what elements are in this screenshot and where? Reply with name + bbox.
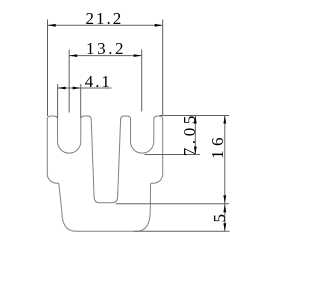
svg-text:21.2: 21.2 (86, 9, 124, 28)
dim 5 line (224, 204, 226, 231)
ext y154.5 (145, 154, 201, 156)
dim 16 line (224, 116, 226, 204)
7.05 arrows (194, 116, 197, 124)
dimension lines and extension lines (48, 20, 230, 232)
ext 21.2 right (162, 20, 164, 117)
ext bottom y231.3 (134, 230, 230, 232)
13.2 arrows (69, 54, 77, 57)
ext 13.2 right (141, 50, 143, 112)
ext 4.1 left (57, 84, 59, 118)
ext 4.1 right (80, 84, 82, 118)
svg-text:5: 5 (210, 214, 229, 223)
svg-text:13.2: 13.2 (86, 39, 126, 58)
ext top right y115.5 (160, 115, 230, 117)
dim 7.05 line (194, 116, 196, 155)
ext 13.2 left (68, 50, 70, 113)
5 arrows (223, 204, 226, 212)
16 arrows (223, 116, 226, 124)
arrowheads (48, 24, 227, 231)
ext y203.8 (116, 203, 229, 205)
21.2 arrows (48, 24, 56, 27)
svg-text:7.05: 7.05 (180, 112, 199, 156)
dim 13.2 line (69, 55, 142, 57)
dim 4.1 line (58, 87, 112, 89)
dim 21.2 line (48, 24, 163, 26)
svg-text:16: 16 (208, 133, 227, 159)
svg-text:4.1: 4.1 (85, 72, 112, 91)
dimension texts (85, 9, 229, 222)
4.1 arrows (58, 87, 66, 90)
ext 21.2 left (47, 20, 49, 117)
profile outline (47, 116, 162, 231)
